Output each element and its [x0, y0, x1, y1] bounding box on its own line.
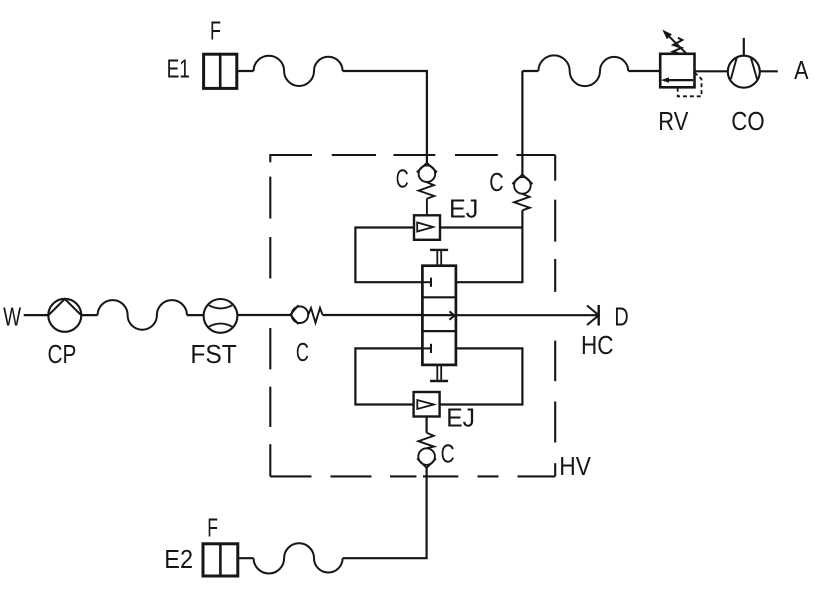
compressor CO [728, 38, 760, 88]
valve port bottom (plugged) [422, 344, 431, 353]
actuator pin bottom [430, 365, 448, 381]
hose CP-FST [98, 300, 187, 330]
ejector EJ top [414, 215, 440, 240]
hose RV [538, 55, 628, 86]
regulator RV [660, 30, 701, 97]
check valve C top-left [417, 163, 437, 216]
svg-text:FST: FST [190, 339, 237, 369]
wire: FST to check valve [237, 314, 290, 316]
svg-text:E2: E2 [164, 544, 193, 574]
HV enclosure dashed right edge [554, 155, 556, 477]
svg-text:CP: CP [48, 339, 77, 369]
hose E2 [254, 543, 343, 573]
wire: top-right vertical from hose corner [521, 71, 523, 175]
wire: RV to CO [695, 70, 728, 72]
svg-text:HV: HV [559, 451, 591, 481]
wire: valve bottom-right loop [440, 348, 523, 404]
HV enclosure dashed left edge [269, 155, 271, 476]
check valve C bottom [417, 433, 436, 468]
HV enclosure dashed bottom edge [270, 475, 555, 477]
svg-text:D: D [614, 301, 628, 331]
svg-text:C: C [296, 337, 309, 367]
wire: EJ top right [440, 226, 522, 228]
wire: CO to A [760, 70, 778, 72]
wire: spool to outlet D [456, 314, 599, 316]
wire: hose to HV, corner down [343, 71, 427, 163]
actuator pin top [430, 250, 448, 266]
wire: filter F outlet [237, 70, 254, 72]
check valve C middle [290, 305, 322, 324]
strainer FST [204, 299, 238, 333]
svg-text:C: C [441, 439, 455, 469]
valve port top (plugged) [422, 278, 431, 287]
hose E1 [254, 56, 343, 86]
svg-text:C: C [489, 167, 503, 197]
wire: EJ top left loop [355, 228, 422, 283]
svg-text:A: A [794, 55, 809, 85]
valve HV spool box [422, 266, 456, 365]
svg-text:EJ: EJ [449, 194, 478, 224]
svg-text:W: W [3, 302, 21, 332]
wire: corner to hose (top right) [522, 70, 538, 72]
wire: right vertical to valve port [456, 210, 523, 282]
svg-text:C: C [396, 163, 409, 193]
check valve C top-right [512, 175, 532, 211]
wire: hose to FST [187, 314, 204, 316]
filter F (E2 line) [203, 544, 238, 576]
svg-text:F: F [210, 15, 221, 45]
wire: pump outlet [81, 314, 97, 316]
valve flow arrow [449, 311, 454, 319]
valve flow path middle [422, 314, 456, 316]
svg-text:CO: CO [731, 106, 764, 136]
HV enclosure dashed top edge [269, 154, 555, 156]
pump CP [48, 299, 81, 332]
filter F (E1 line) [204, 54, 237, 88]
wire: EJ bottom to check valve [426, 417, 428, 433]
outlet arrow D [587, 305, 599, 326]
svg-text:EJ: EJ [446, 402, 475, 432]
wire: valve bottom-left loop [355, 348, 422, 404]
ejector EJ bottom [414, 392, 440, 417]
wire: check valve to spool [323, 314, 423, 316]
wire: W to pump [24, 314, 49, 316]
wire: hose to filter F2 [238, 557, 254, 559]
wire: check valve down to corner [343, 468, 427, 558]
svg-text:RV: RV [658, 106, 689, 136]
svg-text:HC: HC [581, 330, 614, 360]
svg-text:E1: E1 [167, 54, 190, 84]
svg-text:F: F [207, 513, 218, 543]
wire: hose to RV [628, 70, 660, 72]
